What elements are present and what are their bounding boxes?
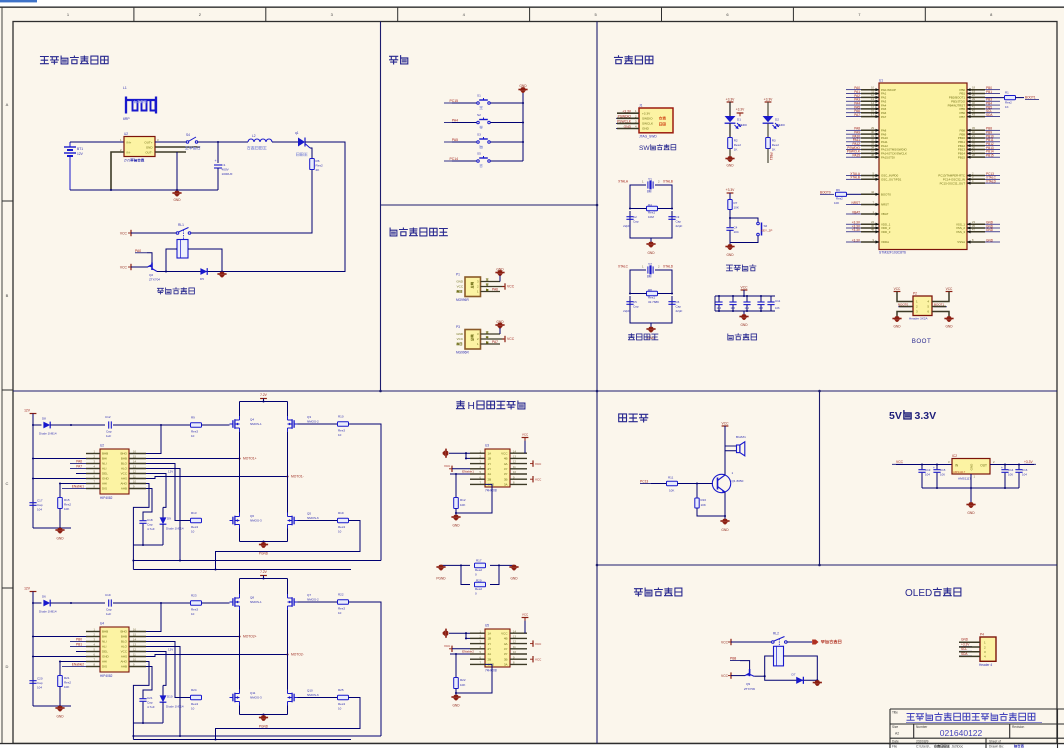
wire colour marks P3 <box>486 331 488 333</box>
wire J1 pin4 <box>617 128 639 130</box>
wire R25 loop to bus <box>216 698 361 740</box>
svg-text:R19: R19 <box>338 511 344 515</box>
svg-text:ENable2: ENable2 <box>72 662 84 666</box>
svg-text:104: 104 <box>717 306 722 310</box>
wire L2 to thyristor <box>272 141 298 143</box>
svg-text:R4: R4 <box>648 203 652 207</box>
svg-text:+3.3V: +3.3V <box>764 98 774 102</box>
wire R11 to base <box>678 483 714 485</box>
resistor R17 zero ohm <box>475 563 486 568</box>
filter rail ends <box>714 296 716 311</box>
svg-text:PC14: PC14 <box>450 157 459 161</box>
svg-text:P3: P3 <box>456 325 460 329</box>
svg-text:Res2: Res2 <box>64 503 71 507</box>
svg-text:MG996R: MG996R <box>456 298 469 302</box>
wire parallel loop <box>461 565 470 584</box>
svg-text:U2: U2 <box>100 444 104 448</box>
wire pin7 to pulldown R15 <box>60 483 86 485</box>
svg-text:+: + <box>1001 466 1003 470</box>
wire PC14 to button <box>452 160 477 162</box>
svg-text:1uF: 1uF <box>106 434 111 438</box>
svg-text:GND: GND <box>945 325 953 329</box>
wire vcc to Q9 emitter <box>731 675 745 677</box>
svg-text:ENable1: ENable1 <box>462 470 474 474</box>
svg-text:12V: 12V <box>77 152 84 156</box>
label 复位电路 <box>726 265 756 271</box>
wire D2 bottom <box>767 149 769 164</box>
svg-text:VDDA: VDDA <box>881 240 889 244</box>
svg-text:10K: 10K <box>460 683 465 687</box>
wire coil left loop <box>765 656 774 676</box>
svg-text:VCC: VCC <box>896 460 904 464</box>
transistor Q11 NMOS-3 <box>230 690 240 706</box>
U3 pin wires <box>470 453 527 484</box>
battery BT1 <box>64 142 76 190</box>
relay RL2 contact <box>772 637 788 647</box>
wire R7 to node <box>729 210 731 228</box>
junction key rail <box>522 141 524 143</box>
U2 pin names <box>102 452 128 491</box>
wire 12V vertical rail <box>32 592 34 707</box>
svg-text:1A: 1A <box>488 631 492 635</box>
label 电磁炮线圈 <box>247 146 266 149</box>
svg-text:VCC: VCC <box>535 642 542 646</box>
svg-text:Res1: Res1 <box>648 210 655 214</box>
svg-text:PGND: PGND <box>436 577 446 581</box>
junction bottom rail <box>110 189 112 191</box>
section title 最小系统 <box>615 56 653 64</box>
wire coil right to diode node <box>188 249 222 272</box>
wire C21 bottom <box>142 702 144 723</box>
wire D2 mid <box>767 124 769 138</box>
wire pin5 enable <box>450 473 470 475</box>
capacitor C20 <box>29 680 36 682</box>
svg-text:PA4: PA4 <box>452 118 458 122</box>
ground GND filter <box>739 314 748 320</box>
svg-text:R8: R8 <box>648 288 652 292</box>
wire D1 mid <box>729 124 731 138</box>
svg-text:D8: D8 <box>42 417 46 421</box>
svg-text:Q1 8050: Q1 8050 <box>732 479 744 483</box>
relay RL2 coil <box>774 646 784 666</box>
svg-text:Q6: Q6 <box>250 514 254 518</box>
svg-text:Q7: Q7 <box>307 593 311 597</box>
svg-text:Res1: Res1 <box>648 295 655 299</box>
svg-text:C3: C3 <box>676 215 680 219</box>
svg-text:AHS: AHS <box>121 655 127 659</box>
wire P2 pin6 to gnd <box>932 312 949 318</box>
wire pin12 vcc drop <box>146 652 166 686</box>
svg-text:+3.3V: +3.3V <box>642 111 651 115</box>
resistor R20 zero ohm <box>475 582 486 587</box>
svg-text:Res3: Res3 <box>191 525 198 529</box>
U4 pin wires <box>86 632 146 667</box>
svg-text:PA6: PA6 <box>492 288 498 292</box>
svg-text:GND: GND <box>970 463 974 471</box>
ground GND relay <box>217 272 226 278</box>
svg-text:4A: 4A <box>504 642 508 646</box>
svg-text:32.768K: 32.768K <box>648 300 659 304</box>
svg-text:Res2: Res2 <box>772 143 780 147</box>
svg-text:VCC: VCC <box>741 286 749 290</box>
label 晶振电路 <box>628 334 658 340</box>
wire C1 to bottom rail <box>217 168 219 190</box>
svg-text:GND: GND <box>967 511 975 515</box>
junction Q9 collector <box>764 675 766 677</box>
svg-text:2A: 2A <box>488 652 492 656</box>
ground GND relay2 <box>813 680 822 686</box>
diode D2 LED0 <box>763 116 774 122</box>
capacitor C1 electrolytic <box>214 164 222 166</box>
svg-text:BHB: BHB <box>121 457 127 461</box>
svg-text:C12: C12 <box>105 415 111 419</box>
capacitor C18 <box>139 520 146 522</box>
wire coil right loop <box>784 656 818 680</box>
wire R1 to BOOT1 <box>1016 97 1025 99</box>
svg-text:BOOT: BOOT <box>912 338 932 345</box>
svg-text:NRST: NRST <box>881 203 889 207</box>
svg-text:+: + <box>215 159 217 163</box>
transistor Q9 ZTX706 <box>745 669 754 676</box>
svg-text:GND: GND <box>456 280 464 284</box>
svg-text:Res2: Res2 <box>734 143 742 147</box>
wire pin11 to MOTO2- <box>146 655 288 657</box>
key S6 KEY_2P <box>757 222 762 236</box>
svg-text:Res3: Res3 <box>338 525 345 529</box>
wire P3 pin3 GND <box>481 333 501 335</box>
wire pin5 stub <box>76 473 86 475</box>
title block frame <box>890 709 1064 748</box>
svg-text:VCC: VCC <box>444 464 451 468</box>
wire pin15 to MOTO1+ <box>146 458 240 460</box>
wire pin15 to MOTO2+ <box>146 636 240 638</box>
svg-text:+3.3V: +3.3V <box>736 108 745 112</box>
capacitor C13 <box>921 465 923 470</box>
svg-text:4A: 4A <box>504 462 508 466</box>
svg-text:2Y: 2Y <box>488 467 492 471</box>
svg-text:3B: 3B <box>504 477 508 481</box>
svg-text:VCC: VCC <box>121 472 128 476</box>
capacitor C11 <box>770 296 772 302</box>
wire vcc to pin4 <box>452 648 470 650</box>
label 舵机 rotated <box>471 282 474 288</box>
svg-text:BT1: BT1 <box>77 147 83 151</box>
svg-text:S2: S2 <box>477 113 481 117</box>
svg-text:Res3: Res3 <box>191 702 198 706</box>
label 空气开关 <box>185 146 200 149</box>
svg-text:AHB: AHB <box>121 487 127 491</box>
svg-text:R7: R7 <box>734 201 738 205</box>
ground GND U4 <box>55 706 64 712</box>
bridge top rail <box>240 401 288 403</box>
wire pin11 to MOTO1- <box>146 477 288 479</box>
capacitor C17 <box>29 502 36 504</box>
svg-text:U4: U4 <box>100 622 104 626</box>
svg-text:GND: GND <box>740 323 748 327</box>
capacitor C12 <box>108 421 110 428</box>
svg-text:GND: GND <box>102 477 110 481</box>
svg-text:+3.3V: +3.3V <box>726 188 736 192</box>
wire PB2 to R1 <box>985 97 1004 99</box>
drawn by value <box>1014 745 1023 748</box>
svg-text:74HC08: 74HC08 <box>485 669 497 673</box>
capacitor C4 <box>726 227 733 229</box>
label 上 <box>480 107 483 110</box>
resistor R22 <box>338 600 349 604</box>
svg-text:VCC: VCC <box>894 287 901 291</box>
svg-text:3Y: 3Y <box>504 472 508 476</box>
svg-text:PC13: PC13 <box>640 480 648 484</box>
svg-text:4.7uF: 4.7uF <box>147 705 155 709</box>
diode D7 <box>796 677 803 684</box>
svg-text:10K: 10K <box>669 489 674 493</box>
svg-text:U1: U1 <box>879 79 883 83</box>
wire U2 GND stub <box>155 146 200 148</box>
svg-text:BHB: BHB <box>102 452 108 456</box>
power VCC U3 4A <box>532 460 534 466</box>
svg-text:12V: 12V <box>168 648 173 652</box>
svg-text:LED0: LED0 <box>777 123 785 127</box>
resistor R LED D2 <box>766 138 771 149</box>
svg-text:Header 4: Header 4 <box>979 663 992 667</box>
svg-text:PB0: PB0 <box>76 637 82 641</box>
wire Q9 collector <box>754 675 765 677</box>
junction key rail <box>522 121 524 123</box>
svg-text:DEL: DEL <box>102 472 108 476</box>
svg-text:R13: R13 <box>191 511 197 515</box>
svg-text:GND: GND <box>173 198 181 202</box>
transistor Q7 NMOS-2 <box>288 594 298 610</box>
wire Q7 gate to R22 <box>298 601 338 603</box>
wire J1 pin1 <box>617 112 639 114</box>
column reference ticks <box>134 7 925 21</box>
wire U2 OUT+ to switch S4 <box>155 141 186 143</box>
wire pin13 down to bus <box>146 469 180 561</box>
wire reset top <box>729 193 731 199</box>
resistor R24 <box>191 695 202 699</box>
svg-text:10: 10 <box>191 530 195 534</box>
svg-text:BOOT0: BOOT0 <box>881 193 891 197</box>
svg-text:106: 106 <box>759 306 764 310</box>
bus wire B <box>133 569 351 571</box>
svg-text:22pF: 22pF <box>623 224 630 228</box>
wire coil left to collector <box>166 249 177 272</box>
bridge right rail <box>287 402 289 417</box>
button S1 <box>477 98 491 104</box>
output port 接炮控对象 <box>813 640 819 644</box>
wire RL2 to arrow <box>787 641 812 643</box>
svg-text:.SchDoc: .SchDoc <box>951 745 963 748</box>
power VCC U3 pin14 <box>524 438 526 453</box>
svg-text:GND: GND <box>726 253 734 257</box>
svg-text:SWDIO: SWDIO <box>642 116 653 120</box>
transistor Q2 ZTX704 <box>148 263 158 272</box>
svg-text:10: 10 <box>338 433 342 437</box>
svg-text:10K: 10K <box>460 503 465 507</box>
svg-text:2020/8/9: 2020/8/9 <box>916 740 929 744</box>
wire thyristor cathode loop right <box>222 142 345 272</box>
svg-text:Q11: Q11 <box>250 691 256 695</box>
block divider horizontal y205 <box>381 204 598 206</box>
capacitor C19 <box>108 599 110 606</box>
svg-text:Cap: Cap <box>37 503 43 507</box>
power VCC U5 3B <box>532 656 534 662</box>
svg-text:C13: C13 <box>925 468 931 472</box>
svg-text:AHI: AHI <box>102 482 107 486</box>
svg-text:1Y: 1Y <box>488 642 492 646</box>
svg-text:B: B <box>6 293 9 298</box>
svg-text:Title: Title <box>892 711 898 715</box>
svg-text:XTALB: XTALB <box>663 180 673 184</box>
block divider horizontal y391 <box>13 390 1057 392</box>
resistor R LED D1 <box>728 138 733 149</box>
svg-text:GND: GND <box>102 655 110 659</box>
svg-text:1K: 1K <box>1005 105 1009 109</box>
wire resistor to Q8 gate <box>202 602 230 604</box>
diode D5 flyback <box>200 268 207 275</box>
svg-text:Revision: Revision <box>1012 725 1024 729</box>
svg-text:VCC: VCC <box>946 287 953 291</box>
svg-text:106: 106 <box>775 306 780 310</box>
label 滤波电路 <box>728 334 757 340</box>
wire PA5 to button <box>452 141 477 143</box>
svg-text:BUZZ1: BUZZ1 <box>736 435 746 439</box>
svg-text:104: 104 <box>734 230 739 234</box>
wire VCC to RL1 contact <box>131 232 176 234</box>
wire pin10 loop <box>133 484 149 546</box>
svg-text:GND: GND <box>510 577 518 581</box>
wire pin2 to 12V rail <box>33 458 86 460</box>
main title 基于电磁原理实现的模拟电磁炮 <box>907 713 1035 720</box>
resistor R22 pulldown <box>455 654 457 678</box>
svg-text:104: 104 <box>37 686 42 690</box>
ground GND D1 <box>725 156 734 162</box>
capacitor C16 <box>1018 465 1020 470</box>
svg-text:Res2: Res2 <box>475 568 482 572</box>
svg-text:DEL: DEL <box>102 650 108 654</box>
svg-text:GND: GND <box>456 332 464 336</box>
diode D8 <box>43 422 50 429</box>
svg-text:VSSA: VSSA <box>957 240 965 244</box>
svg-text:4Y: 4Y <box>504 647 508 651</box>
svg-text:GND: GND <box>56 715 64 719</box>
wire pgnd link rail <box>441 564 470 566</box>
connector P2 box <box>913 296 932 316</box>
wire pin5 stub <box>76 651 86 653</box>
svg-text:NMOS-2: NMOS-2 <box>307 598 319 602</box>
wire button to rail <box>491 141 524 143</box>
svg-text:VCC: VCC <box>522 433 529 437</box>
svg-text:+3.3V: +3.3V <box>1024 460 1034 464</box>
label 舵机 rotated <box>471 335 474 341</box>
svg-text:Cap: Cap <box>633 220 639 224</box>
svg-text:Size: Size <box>892 725 898 729</box>
ground GND U3 input <box>443 449 449 458</box>
wire feed to gate resistor <box>113 424 191 426</box>
svg-text:U2: U2 <box>124 132 128 136</box>
svg-text:PA7: PA7 <box>76 464 82 468</box>
svg-text:C2: C2 <box>633 215 637 219</box>
svg-text:7.2V: 7.2V <box>260 393 268 397</box>
resistor R12 pulldown <box>455 474 457 498</box>
wire pin13 down to bus <box>146 647 180 737</box>
svg-text:BHI: BHI <box>102 457 107 461</box>
svg-text:L1: L1 <box>123 86 127 90</box>
transistor Q6 NMOS-3 <box>230 513 240 529</box>
ic U5 74HC08 box <box>485 629 510 667</box>
svg-text:OSC_OUT/PD1: OSC_OUT/PD1 <box>881 178 902 182</box>
svg-text:12V: 12V <box>24 409 31 413</box>
svg-text:Diode 1N914: Diode 1N914 <box>166 527 184 531</box>
svg-text:104: 104 <box>925 473 930 477</box>
svg-text:104: 104 <box>37 508 42 512</box>
svg-text:Q10: Q10 <box>307 689 313 693</box>
wire P1 pin2 VCC <box>481 286 505 288</box>
wire pin6 to 12V rail <box>33 656 86 658</box>
svg-text:R9: R9 <box>191 416 195 420</box>
connector P1 servo box <box>465 277 481 297</box>
svg-text:MOTO1+: MOTO1+ <box>243 457 257 461</box>
wire feed line left <box>33 424 42 426</box>
svg-text:P1: P1 <box>456 273 460 277</box>
svg-text:C18: C18 <box>147 518 153 522</box>
svg-text:BHB: BHB <box>102 630 108 634</box>
svg-text:R23: R23 <box>191 594 197 598</box>
ic U2 HIP4082 box <box>100 449 129 494</box>
svg-text:C15: C15 <box>940 468 946 472</box>
svg-text:12V: 12V <box>168 470 173 474</box>
svg-text:10K: 10K <box>64 685 69 689</box>
svg-text:104: 104 <box>745 306 750 310</box>
svg-text:Res3: Res3 <box>191 430 198 434</box>
button S3 <box>477 137 491 143</box>
wire P4 pin2 <box>959 646 980 648</box>
svg-text:Res3: Res3 <box>191 608 198 612</box>
svg-text:5V: 5V <box>889 410 902 422</box>
button S5 <box>477 156 491 162</box>
svg-text:PA5: PA5 <box>452 138 458 142</box>
svg-text:AMS1117: AMS1117 <box>953 470 966 474</box>
svg-text:Cap: Cap <box>676 220 682 224</box>
wire D1 top <box>729 102 731 116</box>
svg-text:R2: R2 <box>734 139 738 143</box>
svg-text:106: 106 <box>1008 473 1013 477</box>
wire Q1 collector <box>724 474 726 476</box>
svg-text:GND: GND <box>56 537 64 541</box>
svg-text:OUT+: OUT+ <box>144 140 152 144</box>
label 左 <box>480 145 483 148</box>
svg-text:AMS1117: AMS1117 <box>958 477 971 481</box>
relay RL1 coil <box>177 240 188 259</box>
wire PA4 to button <box>452 122 477 124</box>
wire feed to gate resistor <box>113 602 191 604</box>
ic U3 74HC08 box <box>485 449 510 487</box>
block divider vertical x380 <box>380 22 382 392</box>
U2 pin wires <box>86 454 146 489</box>
svg-text:OLED: OLED <box>905 588 932 599</box>
power VCC U5 pin14 <box>524 618 526 633</box>
svg-text:VCC: VCC <box>501 631 508 635</box>
svg-text:Res2: Res2 <box>1005 101 1012 105</box>
svg-text:GND: GND <box>146 146 154 150</box>
label 下 <box>480 126 483 129</box>
wire P4 pin3 <box>959 651 980 653</box>
svg-text:NMOS-6: NMOS-6 <box>307 516 319 520</box>
svg-text:NMOS-3: NMOS-3 <box>250 519 262 523</box>
capacitor C3 <box>668 216 675 218</box>
svg-text:Date: Date <box>892 740 899 744</box>
bus wire B <box>133 739 351 741</box>
